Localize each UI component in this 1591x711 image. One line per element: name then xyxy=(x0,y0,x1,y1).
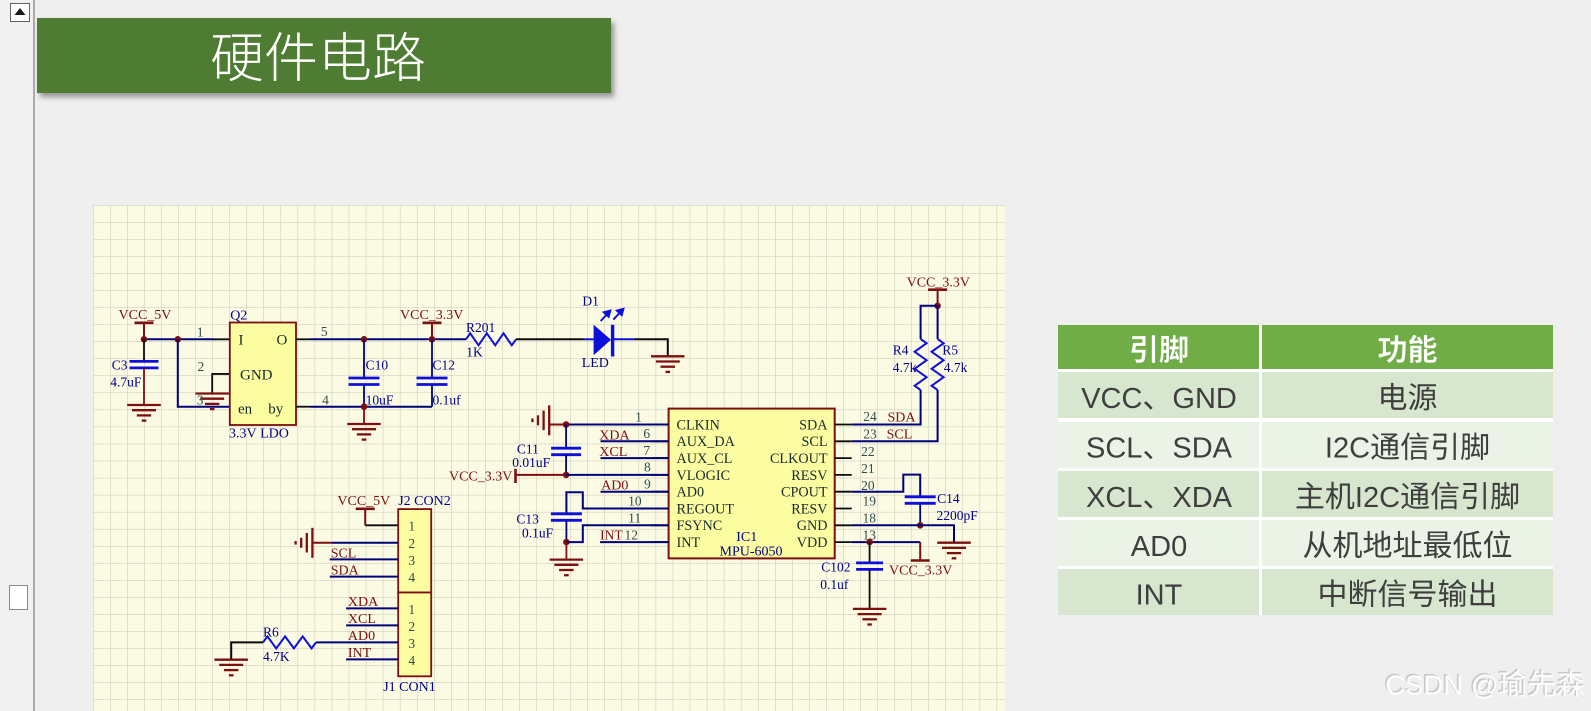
wire branch to en pin xyxy=(178,339,230,406)
ground at LDO pin 2 xyxy=(195,394,229,410)
power flag VCC_5V xyxy=(119,308,172,339)
junction node C10 top xyxy=(361,336,368,343)
IC1 pin stubs right xyxy=(835,425,852,543)
wire GND pin to ground xyxy=(852,525,954,542)
op IC1 MPU-6050 body xyxy=(669,409,835,559)
svg-text:7: 7 xyxy=(643,443,650,458)
capacitor C11 xyxy=(512,425,581,475)
svg-text:AUX_DA: AUX_DA xyxy=(677,434,736,450)
J2 pin numbers xyxy=(408,519,415,585)
junction node C14/GND row xyxy=(917,522,924,529)
resistor R5 4.7k xyxy=(852,306,968,442)
svg-text:C12: C12 xyxy=(433,358,456,373)
svg-text:VCC: VCC xyxy=(1081,383,1142,415)
ground under C10 xyxy=(347,424,381,440)
svg-text:R4: R4 xyxy=(893,343,909,358)
resistor R201 1K xyxy=(466,320,516,360)
wire CLKIN net xyxy=(566,424,669,426)
svg-text:RESV: RESV xyxy=(791,468,828,484)
svg-text:2: 2 xyxy=(408,619,415,634)
svg-text:J1 CON1: J1 CON1 xyxy=(383,680,436,695)
table row 3 cell 引脚 xyxy=(1086,482,1233,514)
table row 4 cell 功能 xyxy=(1304,530,1511,558)
svg-text:VDD: VDD xyxy=(797,535,828,551)
svg-text:1: 1 xyxy=(408,602,415,617)
wire CPOUT to C14 xyxy=(852,475,921,497)
svg-text:R201: R201 xyxy=(466,320,495,335)
svg-text:4: 4 xyxy=(322,393,329,408)
capacitor C13 xyxy=(516,492,668,542)
junction node C10 bottom xyxy=(361,403,368,410)
table row 1 col2 xyxy=(1262,372,1553,419)
table background xyxy=(1058,325,1553,615)
power flag VCC_3.3V at VLOGIC xyxy=(449,469,566,485)
wire C10 to ground xyxy=(363,407,365,424)
svg-text:O: O xyxy=(277,333,288,349)
ground right of LED xyxy=(651,356,685,372)
svg-text:SDA: SDA xyxy=(331,564,360,579)
svg-text:0.1uf: 0.1uf xyxy=(820,577,849,592)
svg-text:19: 19 xyxy=(863,494,877,509)
svg-text:INT: INT xyxy=(677,535,701,551)
scroll up arrow xyxy=(10,3,30,22)
svg-text:3: 3 xyxy=(197,393,204,408)
svg-text:C13: C13 xyxy=(516,512,539,527)
svg-text:1: 1 xyxy=(197,325,204,340)
svg-text:18: 18 xyxy=(863,511,877,526)
net label AD0 at J1 xyxy=(316,629,398,644)
svg-text:GND: GND xyxy=(797,518,828,534)
svg-text:24: 24 xyxy=(863,409,877,424)
table row 5 col2 xyxy=(1262,569,1553,616)
svg-text:5: 5 xyxy=(321,324,328,339)
wire R201 to LED xyxy=(516,338,584,340)
svg-text:SCL: SCL xyxy=(1086,433,1142,465)
svg-text:1K: 1K xyxy=(466,345,483,360)
svg-text:R5: R5 xyxy=(942,343,958,358)
svg-text:Q2: Q2 xyxy=(230,309,247,324)
designator Q2 xyxy=(230,309,247,324)
svg-text:10: 10 xyxy=(628,494,642,509)
table row 1 col1 xyxy=(1058,372,1260,419)
wire VLOGIC xyxy=(566,474,669,476)
junction node R4/R5 top xyxy=(934,303,941,310)
svg-text:INT: INT xyxy=(348,646,372,661)
sheet background xyxy=(93,205,1005,711)
svg-text:SCL: SCL xyxy=(801,434,827,450)
table row 3 col1 xyxy=(1058,471,1260,517)
wire VCC_5V to J2 pin1 xyxy=(365,524,398,526)
net label XDA at J1 xyxy=(346,595,398,610)
svg-text:3.3V LDO: 3.3V LDO xyxy=(229,427,289,442)
table row 4 col1 xyxy=(1058,520,1260,566)
svg-text:8: 8 xyxy=(644,460,651,475)
regulator U Q2 3.3V LDO xyxy=(230,323,296,426)
table row 5 cell 引脚 xyxy=(1136,580,1183,612)
J1 pin numbers xyxy=(408,602,415,668)
capacitor C12 xyxy=(417,339,462,407)
capacitor C3 xyxy=(110,339,158,404)
svg-text:11: 11 xyxy=(628,511,641,526)
table row 4 cell 引脚 xyxy=(1131,531,1187,563)
wire ground to J2 pin2 xyxy=(332,542,398,544)
scroll up button xyxy=(10,3,30,22)
svg-text:6: 6 xyxy=(643,426,650,441)
net label SDA at J2 xyxy=(330,564,398,579)
svg-text:SCL: SCL xyxy=(887,428,913,443)
ground under C13 xyxy=(550,560,584,576)
junction node CLKIN/C11 xyxy=(563,421,570,428)
svg-text:SDA: SDA xyxy=(799,417,828,433)
table header 功能 xyxy=(1378,335,1436,363)
net label SDA xyxy=(888,411,917,426)
wire R6 to ground xyxy=(231,642,263,659)
wire LDO out rail xyxy=(310,338,466,340)
table row 2 cell 引脚 xyxy=(1086,433,1233,465)
svg-text:en: en xyxy=(238,402,253,418)
table row 5 cell 功能 xyxy=(1320,579,1494,607)
svg-text:J2 CON2: J2 CON2 xyxy=(398,494,451,509)
ground under C102 xyxy=(853,609,887,625)
svg-text:INT: INT xyxy=(600,528,623,543)
svg-text:IC1: IC1 xyxy=(736,530,757,545)
svg-text:INT: INT xyxy=(1136,580,1183,612)
ground right of C14 xyxy=(937,543,971,559)
junction node C13 bottom xyxy=(563,539,570,546)
svg-text:23: 23 xyxy=(863,427,877,442)
table row 2 cell 功能 xyxy=(1325,432,1488,464)
power flag VCC_3.3V at C12 xyxy=(400,308,463,339)
svg-text:XDA: XDA xyxy=(348,595,379,610)
table header 引脚 xyxy=(1131,335,1187,363)
svg-text:4.7uF: 4.7uF xyxy=(110,375,142,390)
net label XCL wire xyxy=(599,445,668,460)
capacitor C102 xyxy=(820,542,883,608)
table row 2 col1 xyxy=(1058,422,1260,469)
wire LED to ground xyxy=(635,339,668,356)
svg-text:0.1uf: 0.1uf xyxy=(433,393,462,408)
svg-text:2: 2 xyxy=(408,536,415,551)
svg-text:GND: GND xyxy=(1172,383,1236,415)
designator J2 CON2 xyxy=(398,494,451,509)
junction node at C3 xyxy=(141,336,148,343)
svg-text:SDA: SDA xyxy=(1172,433,1232,465)
svg-text:VLOGIC: VLOGIC xyxy=(677,468,731,484)
svg-text:C10: C10 xyxy=(366,358,389,373)
svg-text:REGOUT: REGOUT xyxy=(677,501,735,517)
svg-text:MPU-6050: MPU-6050 xyxy=(720,545,783,560)
svg-text:XDA: XDA xyxy=(599,428,630,443)
table row 1 cell 引脚 xyxy=(1081,383,1237,415)
svg-text:22: 22 xyxy=(861,444,875,459)
svg-text:XCL: XCL xyxy=(1086,482,1142,514)
title banner xyxy=(37,18,611,93)
connector J1 CON1 body xyxy=(398,593,431,677)
table row 3 cell 功能 xyxy=(1297,482,1518,514)
svg-text:I2C: I2C xyxy=(1355,482,1400,514)
svg-text:XDA: XDA xyxy=(1172,482,1232,514)
IC1 right pin numbers xyxy=(861,409,877,543)
net label INT at J1 xyxy=(346,646,398,661)
svg-text:I: I xyxy=(239,333,244,349)
junction node at en branch xyxy=(175,336,182,343)
power flag VCC_5V at J2 xyxy=(337,494,390,525)
panel separator line xyxy=(33,0,35,711)
svg-text:CLKOUT: CLKOUT xyxy=(770,451,828,467)
watermark CSDN @瑜先森 xyxy=(1384,668,1585,701)
svg-text:CLKIN: CLKIN xyxy=(677,417,720,433)
svg-text:4.7K: 4.7K xyxy=(263,649,290,664)
svg-text:AD0: AD0 xyxy=(601,479,628,494)
svg-text:VCC_3.3V: VCC_3.3V xyxy=(400,308,463,323)
svg-text:4: 4 xyxy=(408,653,415,668)
svg-text:2: 2 xyxy=(198,359,205,374)
svg-text:R6: R6 xyxy=(263,625,279,640)
svg-text:AD0: AD0 xyxy=(1131,531,1187,563)
junction node VDD/C102 xyxy=(866,539,873,546)
svg-text:GND: GND xyxy=(240,368,273,384)
svg-text:4: 4 xyxy=(408,570,415,585)
resistor R6 4.7K xyxy=(263,625,316,665)
wire VCC_5V to LDO pin 1 xyxy=(144,338,213,340)
label 3.3V LDO xyxy=(229,427,289,442)
svg-text:VCC_5V: VCC_5V xyxy=(119,308,172,323)
svg-text:SCL: SCL xyxy=(331,546,357,561)
svg-text:3: 3 xyxy=(408,553,415,568)
svg-text:21: 21 xyxy=(861,461,875,476)
svg-text:0.01uF: 0.01uF xyxy=(512,455,550,470)
capacitor C14 xyxy=(905,491,979,525)
scrollbar thumb box xyxy=(9,585,28,610)
net label XDA wire xyxy=(599,428,668,443)
svg-text:4.7k: 4.7k xyxy=(893,360,917,375)
svg-text:3: 3 xyxy=(408,636,415,651)
wire pin2 to ground xyxy=(212,374,230,393)
power flag VCC_3.3V at VDD xyxy=(889,542,952,578)
svg-text:4.7k: 4.7k xyxy=(944,360,968,375)
IC1 pin names xyxy=(677,417,829,551)
ground under C3 xyxy=(127,405,161,421)
table row 1 cell 功能 xyxy=(1381,383,1436,411)
svg-text:LED: LED xyxy=(582,356,609,371)
svg-text:AD0: AD0 xyxy=(348,629,375,644)
junction node C12 top xyxy=(429,336,436,343)
LDO pin numbers xyxy=(197,324,329,408)
ground left of CLKIN xyxy=(532,405,566,435)
diode D1 LED xyxy=(582,294,635,372)
power flag VCC_3.3V above R4 R5 xyxy=(907,276,970,306)
table row 3 col2 xyxy=(1262,471,1553,517)
ground under R6 xyxy=(214,660,248,676)
svg-text:XCL: XCL xyxy=(348,612,376,627)
svg-text:C102: C102 xyxy=(821,560,850,575)
svg-text:CPOUT: CPOUT xyxy=(781,485,828,501)
net label AD0 wire xyxy=(601,479,669,494)
resistor R4 4.7k xyxy=(852,306,938,425)
LDO pin stubs xyxy=(213,339,230,374)
table row 5 col1 xyxy=(1058,569,1260,616)
svg-text:9: 9 xyxy=(644,477,651,492)
svg-text:VCC_3.3V: VCC_3.3V xyxy=(907,276,970,291)
wire C13 to ground xyxy=(565,542,567,559)
svg-text:2200pF: 2200pF xyxy=(937,508,979,523)
svg-text:VCC_3.3V: VCC_3.3V xyxy=(449,470,512,485)
svg-text:D1: D1 xyxy=(582,294,599,309)
wire pin4 to C10/C12 bottom xyxy=(310,406,432,408)
title text xyxy=(0,0,700,120)
svg-text:by: by xyxy=(268,402,284,418)
table row 4 col2 xyxy=(1262,520,1553,566)
IC1 pin stubs left xyxy=(652,425,669,543)
svg-text:12: 12 xyxy=(625,528,639,543)
junction node VLOGIC/C11 xyxy=(563,472,570,479)
wire VDD row xyxy=(852,541,921,543)
svg-text:CSDN @: CSDN @ xyxy=(1385,670,1498,701)
designator J1 CON1 xyxy=(383,680,436,695)
svg-text:0.1uF: 0.1uF xyxy=(522,526,554,541)
table header row col1 xyxy=(1058,325,1260,369)
svg-text:SDA: SDA xyxy=(888,411,917,426)
net label XCL at J1 xyxy=(346,612,398,627)
svg-text:I2C: I2C xyxy=(1325,433,1370,465)
svg-text:1: 1 xyxy=(635,410,642,425)
net label INT wire xyxy=(600,528,669,543)
net label SCL xyxy=(887,428,913,443)
table row 2 col2 xyxy=(1262,422,1553,469)
net label SCL at J2 xyxy=(330,546,398,561)
ground left of J2 pin2 xyxy=(296,528,332,558)
svg-text:VCC_5V: VCC_5V xyxy=(337,494,390,509)
svg-text:1: 1 xyxy=(408,519,415,534)
designator IC1 MPU-6050 xyxy=(720,530,783,560)
svg-text:AD0: AD0 xyxy=(677,485,705,501)
svg-text:C14: C14 xyxy=(937,491,960,506)
LDO output pin stub 5 xyxy=(296,339,310,406)
svg-text:FSYNC: FSYNC xyxy=(677,518,723,534)
svg-text:XCL: XCL xyxy=(599,445,627,460)
svg-text:AUX_CL: AUX_CL xyxy=(677,451,733,467)
svg-text:VCC_3.3V: VCC_3.3V xyxy=(889,564,952,579)
connector J2 CON2 body xyxy=(398,509,431,592)
capacitor C10 xyxy=(349,339,394,407)
svg-text:RESV: RESV xyxy=(791,501,828,517)
svg-text:10uF: 10uF xyxy=(366,393,394,408)
wire C13 to FSYNC xyxy=(566,525,668,542)
IC1 left pin numbers xyxy=(625,410,652,543)
table header row col2 xyxy=(1262,325,1553,369)
svg-text:C3: C3 xyxy=(112,358,128,373)
left scrollbar track xyxy=(0,0,33,711)
